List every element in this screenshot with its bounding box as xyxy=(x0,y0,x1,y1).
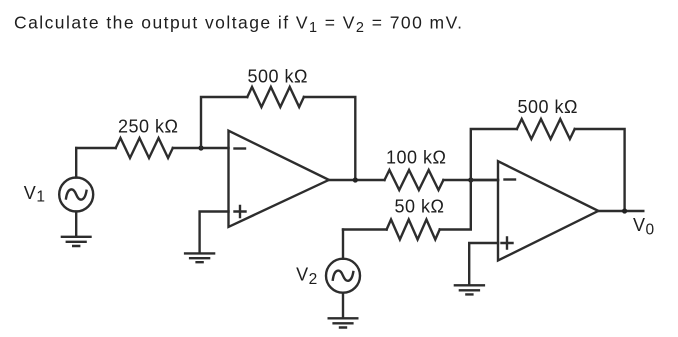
svg-text:250 kΩ: 250 kΩ xyxy=(118,116,179,136)
svg-text:50 kΩ: 50 kΩ xyxy=(395,197,445,217)
svg-text:500 kΩ: 500 kΩ xyxy=(518,97,579,117)
svg-text:V2: V2 xyxy=(296,265,318,288)
svg-text:Calculate the output voltage i: Calculate the output voltage if V1 = V2 … xyxy=(14,13,463,37)
svg-text:V0: V0 xyxy=(633,215,655,238)
svg-text:V1: V1 xyxy=(24,183,46,206)
svg-text:100 kΩ: 100 kΩ xyxy=(386,148,447,168)
svg-text:500 kΩ: 500 kΩ xyxy=(248,67,309,87)
